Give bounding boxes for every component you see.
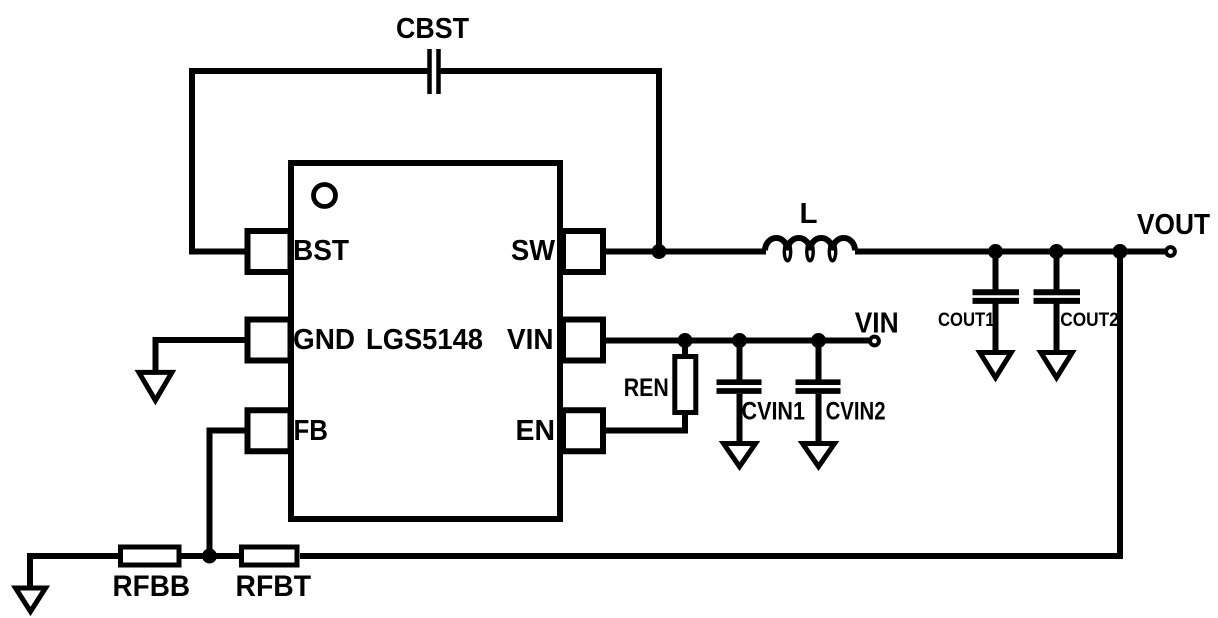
- svg-text:RFBB: RFBB: [113, 570, 191, 603]
- svg-text:VIN: VIN: [507, 324, 554, 356]
- wire FB pin down to feedback node: [210, 431, 246, 557]
- capacitor COUT1: [973, 252, 1020, 352]
- wire inductor to VOUT terminal: [855, 249, 1167, 255]
- wire CBST to SW node: [439, 71, 660, 252]
- svg-text:LGS5148: LGS5148: [366, 324, 483, 356]
- ground symbol at GND pin: [139, 372, 172, 400]
- svg-text:FB: FB: [294, 415, 329, 447]
- pin box FB: [248, 410, 291, 451]
- capacitor CVIN1: [717, 341, 762, 443]
- ground symbol at COUT2: [1041, 353, 1072, 378]
- wire VIN pin to VIN terminal: [606, 338, 870, 344]
- svg-text:REN: REN: [624, 374, 669, 402]
- pin box BST: [248, 231, 291, 272]
- pin box GND: [248, 320, 291, 361]
- svg-text:L: L: [800, 198, 818, 230]
- node COUT2 junction: [1049, 244, 1064, 259]
- IC U1 regulator body LGS5148: [291, 163, 560, 519]
- svg-text:BST: BST: [293, 235, 349, 267]
- node A junction (SW / CBST): [652, 244, 667, 259]
- svg-text:GND: GND: [293, 324, 355, 356]
- capacitor CBST: [430, 49, 439, 94]
- node CVIN1 junction: [732, 333, 747, 348]
- svg-text:COUT1: COUT1: [938, 310, 995, 331]
- ground symbol at COUT1: [980, 353, 1011, 378]
- node CVIN2 junction: [811, 333, 826, 348]
- svg-text:CVIN1: CVIN1: [742, 397, 806, 425]
- pin box EN: [563, 410, 603, 451]
- svg-text:RFBT: RFBT: [236, 570, 312, 603]
- inductor L: [765, 238, 855, 261]
- wire node A to inductor: [659, 249, 766, 255]
- ground symbol at CVIN1: [724, 444, 756, 467]
- pin box VIN: [563, 320, 603, 361]
- node VOUT feedback junction: [1113, 244, 1128, 259]
- capacitor CVIN2: [796, 341, 841, 443]
- svg-text:EN: EN: [516, 415, 556, 447]
- capacitor COUT2: [1034, 252, 1081, 352]
- svg-text:SW: SW: [511, 235, 556, 267]
- resistor RFBB: [121, 547, 180, 565]
- pin-1 marker circle: [314, 185, 336, 207]
- svg-text:CVIN2: CVIN2: [826, 397, 886, 425]
- wire BST loop: BST pin up and across top to CBST: [192, 71, 429, 252]
- resistor REN: [606, 341, 696, 431]
- svg-text:CBST: CBST: [396, 13, 469, 45]
- node FB junction: [202, 549, 217, 564]
- node REN tap junction: [678, 333, 693, 348]
- node COUT1 junction: [988, 244, 1003, 259]
- svg-text:VIN: VIN: [855, 308, 899, 340]
- svg-text:VOUT: VOUT: [1137, 209, 1210, 241]
- ground symbol bottom left: [16, 588, 46, 612]
- resistor RFBT: [242, 547, 298, 565]
- pin box SW: [563, 231, 603, 272]
- wire RFBB to FB node: [182, 553, 240, 559]
- ground symbol at CVIN2: [803, 444, 835, 467]
- wire RFBT to VOUT feedback: [300, 252, 1120, 557]
- svg-text:COUT2: COUT2: [1060, 310, 1119, 331]
- wire GND pin to ground: [156, 340, 246, 373]
- terminal VIN open circle: [870, 337, 879, 346]
- wire SW pin to node A: [606, 249, 659, 255]
- wire bottom left to ground: [30, 556, 120, 590]
- terminal VOUT open circle: [1166, 247, 1175, 256]
